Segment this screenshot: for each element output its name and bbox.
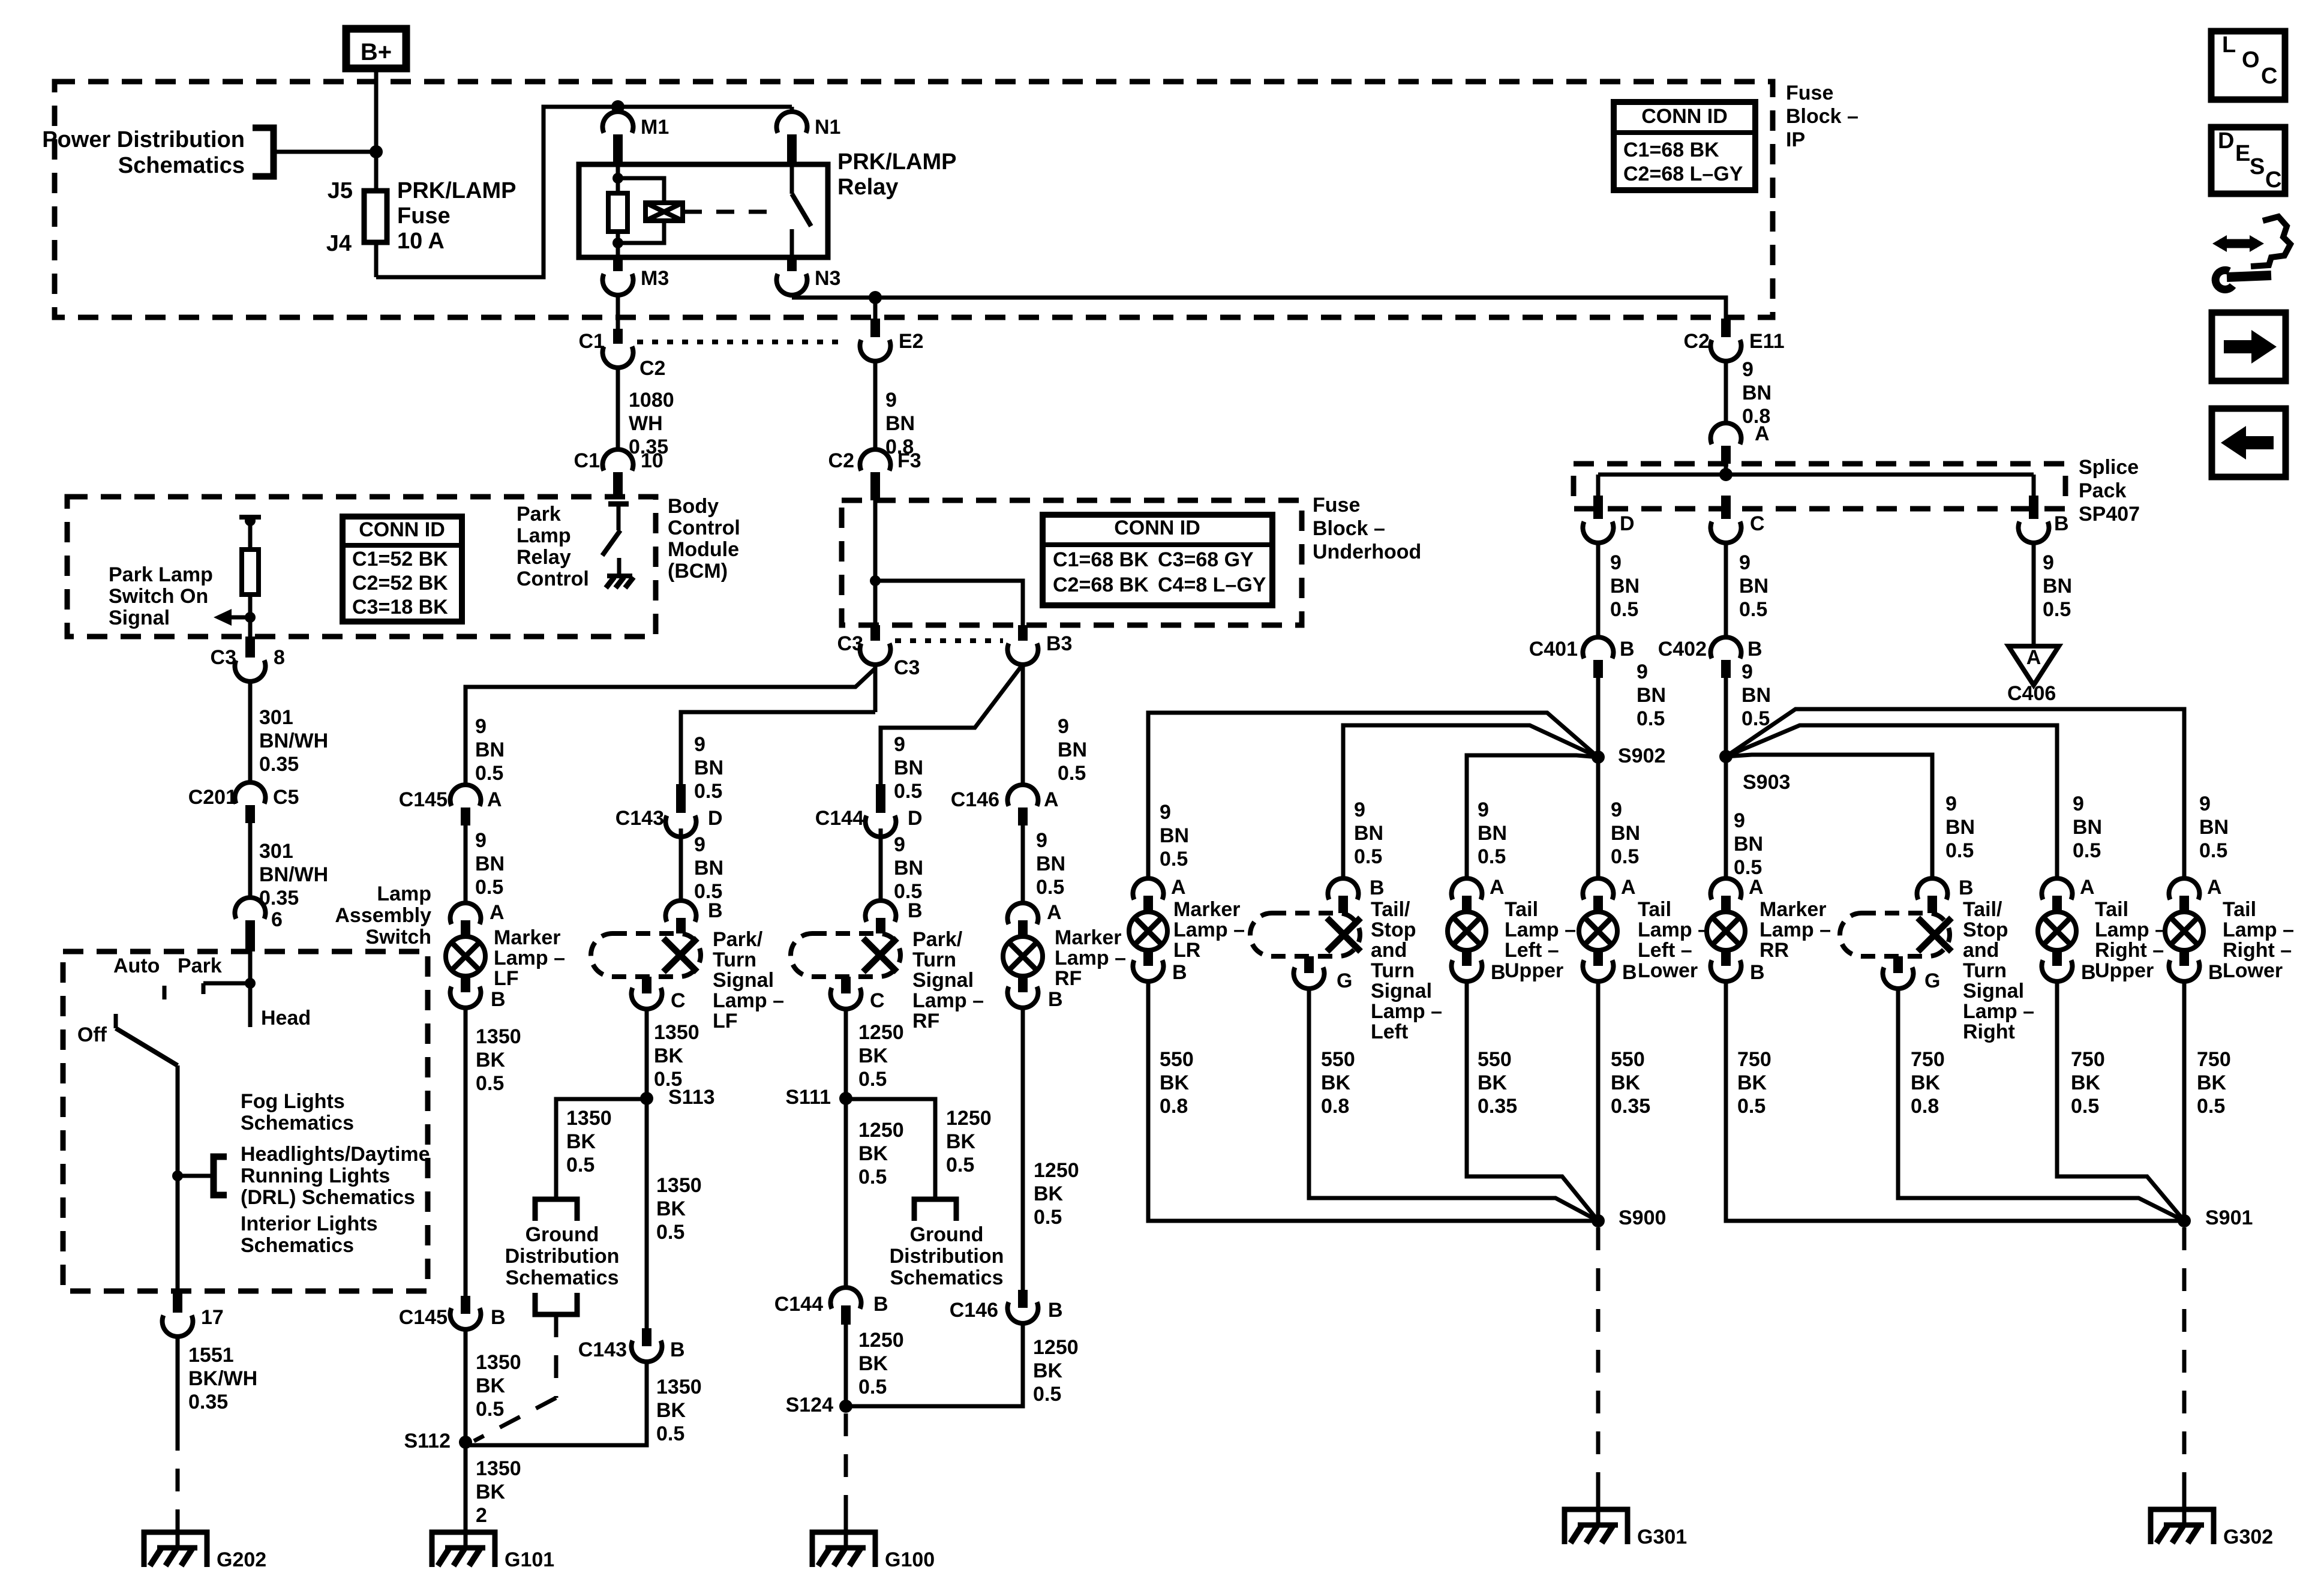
svg-text:Turn: Turn [1963,959,2007,982]
svg-text:0.5: 0.5 [2043,598,2071,621]
lamp park/turn signal LF dashed outline [666,900,696,921]
svg-text:Right: Right [1963,1020,2015,1043]
svg-text:A: A [487,788,502,811]
bracket to other schematics [214,1157,227,1195]
svg-text:9: 9 [1611,798,1622,821]
arrow park lamp switch on signal [230,616,250,620]
svg-text:BK: BK [476,1481,506,1503]
svg-text:A: A [1490,876,1505,899]
svg-text:and: and [1963,939,1999,962]
svg-text:LF: LF [713,1010,738,1032]
svg-text:B: B [1747,638,1762,661]
node splice S113 [640,1092,653,1105]
svg-text:(BCM): (BCM) [668,560,728,583]
svg-text:Headlights/Daytime: Headlights/Daytime [241,1143,430,1166]
svg-text:Lamp –: Lamp – [1638,918,1709,941]
connector C splice pack [1721,496,1731,519]
svg-text:C1=68 BK: C1=68 BK [1623,139,1719,161]
svg-text:BN: BN [894,857,923,879]
switch assembly dashed box [63,951,428,1291]
svg-text:C: C [870,989,885,1012]
svg-text:Power Distribution: Power Distribution [42,127,245,152]
dashed wire S900 to ground G301 [1596,1227,1601,1488]
svg-text:BK: BK [858,1044,888,1067]
svg-text:550: 550 [1321,1048,1355,1071]
ground inside BCM [607,574,632,578]
svg-text:750: 750 [1737,1048,1771,1071]
svg-text:B: B [708,899,723,922]
svg-text:C1: C1 [579,330,605,353]
svg-text:750: 750 [1911,1048,1945,1071]
svg-text:Distribution: Distribution [890,1245,1004,1268]
svg-text:Signal: Signal [109,607,170,629]
svg-text:1250: 1250 [858,1119,904,1142]
off-page bracket return [535,1293,577,1314]
svg-text:Switch On: Switch On [109,585,208,608]
svg-text:BK: BK [1737,1071,1767,1094]
svg-text:550: 550 [1478,1048,1512,1071]
svg-text:C: C [2265,167,2281,193]
headlamp switch contacts [248,951,253,983]
svg-text:0.5: 0.5 [1354,845,1382,868]
svg-text:0.8: 0.8 [1321,1095,1349,1118]
svg-text:10: 10 [641,449,663,472]
svg-text:(DRL) Schematics: (DRL) Schematics [241,1186,415,1209]
wire S902 to tail/stop left [1343,725,1598,879]
wire S903 to tail lamp right upper [1726,725,2057,879]
table CONN ID fuse block IP [1614,102,1755,190]
svg-text:Marker: Marker [494,926,561,949]
svg-text:G301: G301 [1637,1526,1687,1548]
node splice S901 [2178,1214,2191,1227]
svg-text:BN: BN [2073,816,2102,839]
svg-text:9: 9 [894,833,905,856]
svg-text:0.5: 0.5 [1478,845,1506,868]
svg-text:J5: J5 [328,178,353,203]
svg-text:Lamp –: Lamp – [1173,918,1245,941]
wire S903 to marker lamp RR [1724,757,1728,879]
icon box arrow right [2212,313,2286,381]
table CONN ID BCM [343,517,462,622]
svg-text:CONN ID: CONN ID [1641,105,1728,128]
svg-text:A: A [490,901,505,924]
connector C1/C2 fuse block IP [613,329,623,344]
wire tail/stop left G to S900 [1309,989,1598,1221]
wire tail right upper to S901 [2057,982,2184,1221]
svg-text:BK: BK [566,1130,596,1153]
wire E2 to F3 [873,361,878,449]
svg-text:E2: E2 [899,330,924,353]
svg-text:BN: BN [1637,684,1666,707]
svg-text:1250: 1250 [1034,1159,1079,1182]
wire marker LR to S900 [1148,982,1598,1221]
svg-text:S903: S903 [1743,771,1790,794]
svg-text:RF: RF [912,1010,939,1032]
ground G101 [432,1532,495,1567]
svg-text:BN: BN [1354,822,1383,845]
relay switch contact [790,164,794,194]
svg-text:C406: C406 [2007,682,2056,705]
svg-text:BK: BK [1160,1071,1190,1094]
svg-text:C146: C146 [951,788,999,811]
off-page bracket to ground distribution [535,1199,577,1221]
connector C146 pin B [1008,1302,1038,1323]
svg-text:Fuse: Fuse [397,203,451,229]
svg-text:B: B [1370,876,1385,899]
svg-text:550: 550 [1611,1048,1645,1071]
fuse PRK/LAMP 10A J5-J4 [374,152,379,191]
svg-text:550: 550 [1160,1048,1194,1071]
svg-text:0.5: 0.5 [475,762,503,785]
wire tail right lower to S901 [2182,982,2187,1221]
svg-text:17: 17 [201,1306,224,1329]
node junction at E2 drop [869,291,882,304]
wire S903 to tail/stop right [1726,755,1932,879]
svg-text:9: 9 [1734,809,1745,832]
connector M3 [613,257,623,271]
svg-text:Schematics: Schematics [241,1234,354,1257]
svg-text:BN: BN [694,857,723,879]
lamp park/turn signal RF dashed outline [866,900,896,921]
wire C401 to S902 [1596,678,1601,757]
svg-text:C146: C146 [950,1299,998,1322]
svg-text:Lamp –: Lamp – [713,989,784,1012]
svg-text:C3=68 GY: C3=68 GY [1158,548,1254,571]
svg-text:0.35: 0.35 [188,1391,228,1413]
svg-text:B: B [1172,961,1187,984]
svg-text:1250: 1250 [946,1107,992,1130]
wire S111 to ground distribution bracket [846,1099,935,1199]
svg-text:BN: BN [1742,684,1771,707]
svg-text:Left –: Left – [1638,939,1692,962]
wire marker RF to C146 B [1021,1008,1025,1290]
svg-text:Assembly: Assembly [335,904,431,927]
svg-text:0.5: 0.5 [1637,707,1665,730]
svg-text:B: B [873,1293,888,1316]
fuse block underhood dashed box [842,500,1302,625]
svg-text:N1: N1 [815,116,840,139]
node junction at signal arrow [245,612,256,623]
lamp tail left lower [1583,878,1614,899]
svg-text:1350: 1350 [656,1174,702,1197]
svg-text:1350: 1350 [476,1457,521,1480]
BCM park lamp relay control switch [608,502,629,507]
node junction at B3 branch [870,575,881,586]
svg-text:Left –: Left – [1505,939,1559,962]
icon box arrow left [2212,409,2286,477]
svg-text:Right –: Right – [2095,939,2164,962]
svg-text:10 A: 10 A [397,229,445,254]
svg-text:BK: BK [654,1044,684,1067]
dashed wire S124 to ground G100 [844,1413,848,1512]
svg-text:BN: BN [1036,852,1065,875]
svg-text:B: B [2081,961,2096,984]
svg-text:C5: C5 [273,786,299,809]
svg-text:BN: BN [1478,822,1507,845]
lamp tail right upper [2042,878,2073,899]
svg-text:0.5: 0.5 [656,1422,684,1445]
wire C144 B to S124 [844,1325,848,1406]
icon box LOC [2211,31,2285,100]
wire B to C406 [2032,543,2036,646]
connector A splice pack [1710,423,1741,444]
wire E11 to splice pack A [1724,361,1728,424]
svg-text:B3: B3 [1046,632,1072,655]
svg-text:G202: G202 [217,1548,266,1571]
svg-text:Tail/: Tail/ [1963,898,2002,921]
svg-text:Lamp –: Lamp – [1505,918,1576,941]
svg-text:0.5: 0.5 [2071,1095,2099,1118]
svg-text:Fuse: Fuse [1313,494,1360,517]
svg-text:S901: S901 [2205,1206,2253,1229]
svg-text:0.35: 0.35 [1478,1095,1517,1118]
svg-text:Signal: Signal [1963,980,2024,1002]
svg-text:9: 9 [1739,551,1750,574]
svg-text:S113: S113 [668,1086,715,1109]
svg-text:A: A [1755,422,1770,445]
svg-text:1350: 1350 [654,1021,699,1044]
wire marker RR to S901 [1726,982,2184,1221]
svg-text:9: 9 [2043,551,2054,574]
svg-text:RR: RR [1759,939,1789,962]
svg-text:BK: BK [476,1049,506,1071]
svg-text:9: 9 [2073,792,2084,815]
connector C401 pin B [1583,637,1614,658]
svg-text:0.5: 0.5 [566,1154,594,1176]
wire park/turn LF to S113 [645,1009,649,1098]
svg-text:BK: BK [2071,1071,2101,1094]
svg-text:BK: BK [656,1197,686,1220]
svg-text:0.8: 0.8 [1911,1095,1939,1118]
wire tail left upper to S900 [1467,982,1598,1221]
svg-text:0.5: 0.5 [1033,1383,1061,1406]
svg-text:C4=8 L–GY: C4=8 L–GY [1158,574,1266,596]
svg-text:C2: C2 [828,449,854,472]
svg-text:9: 9 [1742,661,1753,683]
svg-text:PRK/LAMP: PRK/LAMP [397,178,516,203]
wire B3 to marker lamp RF [1021,665,1025,785]
connector C146 pin A [1008,785,1038,806]
svg-text:BK/WH: BK/WH [188,1367,257,1390]
svg-text:E11: E11 [1749,330,1785,353]
svg-text:Turn: Turn [1371,959,1415,982]
svg-text:B: B [2208,961,2223,984]
svg-text:BK: BK [476,1374,506,1397]
svg-text:B: B [491,988,506,1011]
connector pin 17 of lamp switch [173,1291,182,1313]
wire C3-8 to C201 [248,682,253,783]
ground G100 [812,1532,875,1567]
connector C144 pin B [831,1287,861,1308]
svg-text:0.5: 0.5 [476,1072,504,1095]
wire C201 to lamp switch [248,823,253,898]
svg-text:SP407: SP407 [2079,503,2140,526]
node splice S902 [1592,751,1605,764]
svg-text:C401: C401 [1529,638,1578,661]
connector C402 pin B [1711,637,1742,658]
svg-text:Lamp –: Lamp – [1371,1000,1442,1023]
connector N1 [790,107,794,113]
wire branch B3 to park/turn RF [881,666,1022,784]
svg-text:B: B [491,1306,506,1329]
svg-text:G302: G302 [2223,1526,2273,1548]
svg-text:BN: BN [475,852,505,875]
svg-text:Block –: Block – [1313,517,1385,540]
off-page triangle connector C406 cavity A [2008,646,2059,685]
svg-text:1350: 1350 [566,1107,612,1130]
svg-text:BK: BK [656,1399,686,1422]
svg-text:BN: BN [1739,575,1768,598]
svg-text:N3: N3 [815,267,840,290]
ground G301 [1565,1509,1628,1544]
svg-text:G100: G100 [885,1548,935,1571]
wire C143 B to S112 [466,1362,647,1445]
ground G202 [144,1532,207,1567]
svg-text:9: 9 [1354,798,1365,821]
svg-text:BN: BN [1945,816,1975,839]
svg-text:F3: F3 [897,449,921,472]
svg-text:C2=52 BK: C2=52 BK [352,572,448,595]
svg-text:9: 9 [1742,358,1753,381]
svg-text:C2=68 BK: C2=68 BK [1053,574,1149,596]
svg-text:9: 9 [1637,661,1648,683]
svg-text:Signal: Signal [1371,980,1432,1002]
svg-text:1250: 1250 [858,1329,904,1352]
svg-text:Tail: Tail [1505,898,1538,921]
connector E2 [873,298,878,319]
svg-text:Fuse: Fuse [1786,82,1833,104]
svg-text:0.5: 0.5 [475,876,503,899]
svg-text:Off: Off [77,1023,107,1046]
wire S902 to marker lamp LR [1148,713,1598,879]
svg-text:S111: S111 [785,1086,831,1109]
svg-text:6: 6 [271,908,283,931]
svg-text:L: L [2222,32,2236,58]
svg-text:A: A [2207,876,2222,899]
wire S903 to tail lamp right lower [1726,709,2184,879]
connector C201 pin C5 [235,782,266,803]
wire branch to park/turn LF [681,712,875,784]
switch blade Off position [114,1014,118,1028]
svg-text:B: B [1048,988,1063,1011]
svg-text:C3: C3 [894,656,920,679]
svg-text:BN: BN [1611,822,1640,845]
svg-text:C144: C144 [815,807,864,830]
svg-text:C145: C145 [399,788,448,811]
lamp marker LR [1133,878,1164,899]
svg-text:9: 9 [885,389,897,412]
wire C2 to BCM pin 10 [616,368,620,449]
svg-text:Control: Control [668,517,740,539]
table CONN ID underhood [1043,515,1272,605]
svg-text:750: 750 [2071,1048,2105,1071]
svg-text:Tail/: Tail/ [1371,898,1410,921]
svg-text:1350: 1350 [656,1376,702,1398]
svg-text:G: G [1337,969,1352,992]
svg-text:Control: Control [517,568,589,590]
svg-text:A: A [1621,876,1636,899]
svg-text:Distribution: Distribution [505,1245,620,1268]
svg-text:C143: C143 [615,807,664,830]
svg-text:BN: BN [2043,575,2072,598]
connector interface dotted line C3-B3 [895,638,1003,643]
svg-text:9: 9 [1478,798,1489,821]
svg-text:Marker: Marker [1055,926,1122,949]
svg-text:Right –: Right – [2223,939,2292,962]
lamp tail left upper [1452,878,1482,899]
svg-text:Running Lights: Running Lights [241,1164,390,1187]
dashed wire S901 to ground G302 [2182,1227,2187,1488]
svg-text:G101: G101 [505,1548,554,1571]
connector E11 [1721,319,1731,337]
svg-text:BN/WH: BN/WH [259,863,328,886]
svg-text:PRK/LAMP: PRK/LAMP [837,149,956,175]
svg-text:0.5: 0.5 [858,1166,887,1188]
node splice S903 [1719,750,1733,763]
svg-text:IP: IP [1786,128,1805,151]
svg-text:0.35: 0.35 [259,753,299,776]
svg-text:1250: 1250 [1033,1336,1079,1359]
svg-text:0.5: 0.5 [2199,839,2227,862]
svg-text:Lamp –: Lamp – [2095,918,2166,941]
svg-text:9: 9 [2199,792,2211,815]
svg-text:2: 2 [476,1504,487,1527]
icon box DESC [2211,127,2285,194]
svg-text:BN: BN [1742,382,1771,404]
svg-text:BN: BN [475,739,505,761]
svg-text:0.5: 0.5 [1034,1206,1062,1229]
svg-text:C144: C144 [774,1293,823,1316]
svg-text:LF: LF [494,967,519,990]
svg-text:Turn: Turn [713,948,756,971]
svg-text:Pack: Pack [2079,479,2126,502]
svg-text:BN: BN [1734,833,1763,855]
svg-text:B: B [2054,512,2069,535]
svg-text:Park: Park [517,503,561,526]
svg-text:RF: RF [1055,967,1082,990]
wire branch to marker lamp LF [466,668,875,785]
wire park/turn RF to S111 [844,1009,848,1098]
wire fuse to relay M1/N1 feed [376,107,792,277]
svg-text:Stop: Stop [1963,918,2008,941]
relay control dashed link [684,210,777,214]
svg-text:A: A [1749,876,1764,899]
node splice S112 [459,1436,472,1449]
svg-text:BK: BK [1034,1182,1064,1205]
wire C3 to front park lamps [873,665,878,712]
svg-text:9: 9 [475,715,487,738]
svg-text:S: S [2250,154,2265,179]
svg-text:Tail: Tail [1638,898,1671,921]
svg-text:A: A [2026,646,2041,669]
wire S113 to C143 B [645,1098,649,1330]
svg-text:9: 9 [1036,829,1047,852]
wire D to C401 [1596,543,1601,637]
svg-text:BK: BK [1321,1071,1351,1094]
svg-text:9: 9 [1058,715,1069,738]
svg-text:LR: LR [1173,939,1200,962]
svg-text:Underhood: Underhood [1313,541,1421,563]
svg-text:BN: BN [2199,816,2229,839]
svg-text:A: A [1047,901,1062,924]
svg-text:1350: 1350 [476,1351,521,1374]
relay coil resistor branch [616,164,620,178]
wire S902 to tail lamp left upper [1467,755,1598,879]
connector C145 pin A [450,785,481,806]
svg-text:and: and [1371,939,1407,962]
off-page bracket to ground distribution right [914,1199,956,1221]
svg-text:BN/WH: BN/WH [259,730,328,752]
